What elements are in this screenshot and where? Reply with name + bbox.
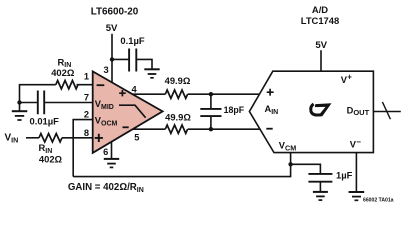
wire pin 4 to R3 <box>132 93 165 95</box>
resistor R1 RIN 402 (upper input) <box>51 56 78 89</box>
svg-text:49.9Ω: 49.9Ω <box>165 111 191 122</box>
ground (0.1uF) <box>144 69 159 78</box>
wire C2 to pin 7 <box>44 102 92 104</box>
svg-text:3: 3 <box>104 65 109 75</box>
minus (pin 1 input) <box>97 84 105 86</box>
wire VCM node to C4 <box>291 164 321 174</box>
svg-text:6: 6 <box>103 147 108 157</box>
wire V- to ground <box>355 153 357 192</box>
wire VIN to R2 <box>26 137 39 139</box>
resistor R3 49.9 (upper) <box>165 75 191 98</box>
wire pin 5 to R4 <box>133 128 165 130</box>
capacitor C2 0.01uF <box>30 91 60 127</box>
wire 5V to V+ <box>320 50 322 71</box>
junction input ground node <box>17 100 21 104</box>
svg-text:A/D: A/D <box>312 4 328 15</box>
minus (pin 5 output) <box>123 126 129 128</box>
svg-text:5V: 5V <box>315 40 327 51</box>
wire pin 2 VOCM <box>73 120 93 177</box>
wire junction to C1 <box>112 58 129 60</box>
wire DOUT bus <box>373 111 400 113</box>
minus (AIN-) <box>266 128 272 130</box>
ground (V-) <box>349 192 365 200</box>
svg-text:5V: 5V <box>106 23 118 34</box>
logo Linear Technology <box>311 103 332 116</box>
junction 5V/0.1uF <box>110 57 114 61</box>
wire pin 6 to ground <box>111 142 113 159</box>
plus (pin 8 input) <box>95 134 103 142</box>
svg-text:402Ω: 402Ω <box>39 153 63 164</box>
junction 18pF bottom <box>209 127 213 131</box>
wire upper input: ground corner to R1 <box>20 85 56 103</box>
svg-text:GAIN = 402Ω/RIN: GAIN = 402Ω/RIN <box>68 182 144 194</box>
svg-text:LT6600-20: LT6600-20 <box>91 7 139 18</box>
bus slash <box>382 102 390 119</box>
svg-text:1: 1 <box>84 72 89 82</box>
svg-text:49.9Ω: 49.9Ω <box>165 75 191 86</box>
wire R3 to ADC + input <box>188 93 260 95</box>
op-amp U1 triangle <box>93 71 163 152</box>
svg-text:18pF: 18pF <box>224 105 245 115</box>
A/D U2 LTC1748 body <box>249 71 373 152</box>
svg-text:0.01µF: 0.01µF <box>30 115 60 126</box>
resistor R4 49.9 (lower) <box>165 111 191 133</box>
ground (pin 6) <box>104 159 119 168</box>
ground (input node) <box>12 103 27 121</box>
junction 18pF top <box>209 92 213 96</box>
plus (AIN+) <box>267 89 274 96</box>
wire VOCM rail to VCM <box>73 153 290 177</box>
wire C1 to ground <box>136 59 152 69</box>
wire R4 to ADC - input <box>188 128 260 130</box>
svg-text:5: 5 <box>134 133 139 143</box>
wire node to C2 <box>20 102 38 104</box>
capacitor C1 0.1uF <box>120 35 144 72</box>
svg-text:8: 8 <box>84 128 89 138</box>
svg-text:2: 2 <box>84 109 89 119</box>
svg-text:1µF: 1µF <box>336 170 353 181</box>
svg-text:66002 TA01a: 66002 TA01a <box>363 198 394 204</box>
wire R1 to pin 1 <box>77 84 93 86</box>
svg-text:LTC1748: LTC1748 <box>301 15 339 26</box>
capacitor C4 1uF <box>308 170 352 192</box>
svg-text:402Ω: 402Ω <box>51 67 75 78</box>
wire 5V to pin 3 <box>111 34 113 83</box>
ground (1uF) <box>313 192 328 200</box>
resistor R2 RIN 402 (lower input) <box>39 134 63 165</box>
plus (pin 4 output) <box>119 90 126 96</box>
wire R2 to pin 8 <box>62 137 93 139</box>
junction VCM node <box>288 162 292 166</box>
svg-text:7: 7 <box>84 93 89 103</box>
filter response curve <box>119 105 146 118</box>
capacitor C3 18pF <box>200 94 244 129</box>
svg-text:0.1µF: 0.1µF <box>120 35 144 46</box>
svg-text:VCM: VCM <box>279 141 296 153</box>
svg-text:4: 4 <box>132 85 138 95</box>
